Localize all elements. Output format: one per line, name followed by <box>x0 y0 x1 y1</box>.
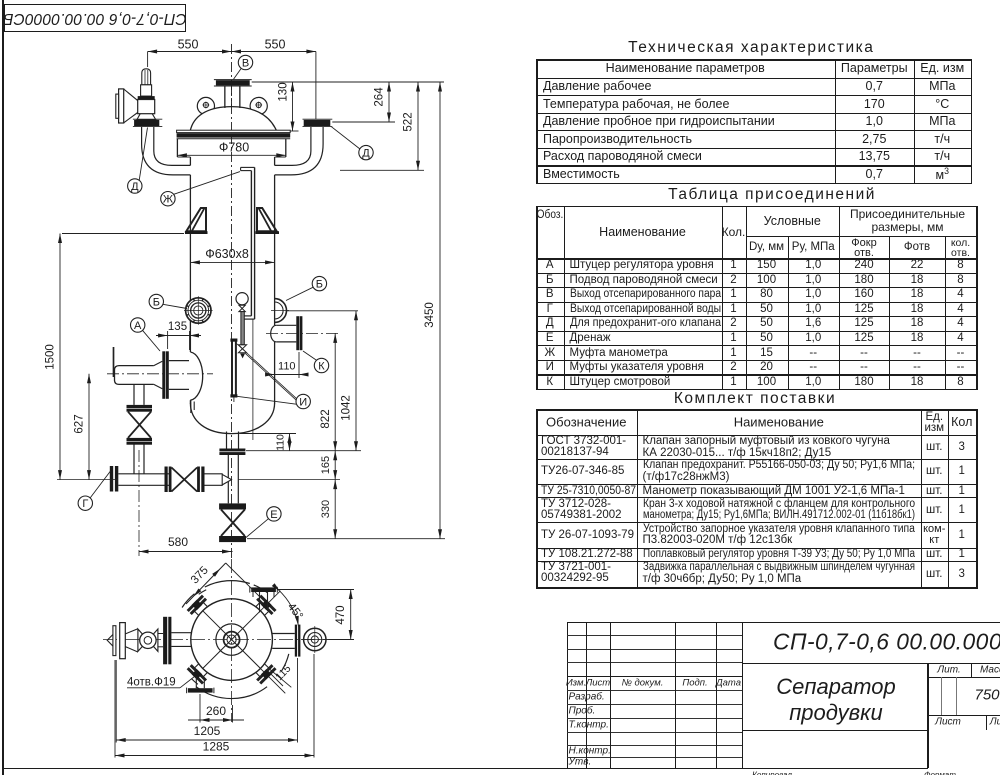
lifting lug right <box>250 97 267 114</box>
pipe D right elbow <box>275 127 324 175</box>
plan bottom nozzle <box>188 688 213 692</box>
svg-text:Ф630х8: Ф630х8 <box>205 247 249 261</box>
svg-text:А: А <box>134 320 142 332</box>
plan view: shell circle <box>191 599 273 681</box>
support bracket right <box>257 208 277 231</box>
reducer cone to regulator <box>154 361 163 365</box>
bottom flange pair <box>219 449 245 452</box>
svg-text:1205: 1205 <box>194 724 221 738</box>
NE diagonal extension <box>260 591 280 611</box>
manometer <box>236 293 248 305</box>
svg-text:110: 110 <box>275 434 287 451</box>
nozzle B flange (top) <box>214 79 252 81</box>
label B right <box>312 276 326 290</box>
plan left cap <box>107 635 113 647</box>
dim 522 <box>340 169 424 171</box>
svg-text:115: 115 <box>273 663 293 683</box>
dim 627 <box>88 374 90 480</box>
bottom nozzle <box>226 432 228 449</box>
plan vertical centerline <box>231 559 233 722</box>
F780 shell section walls <box>176 139 178 157</box>
label G <box>78 496 92 510</box>
plan inner circle F630 inner <box>216 624 247 655</box>
flange D right (black bar) <box>303 118 333 120</box>
svg-text:1285: 1285 <box>203 740 230 754</box>
label I with leaders <box>296 394 310 408</box>
dim 115 <box>269 669 291 688</box>
dim 1205 <box>115 660 117 743</box>
plan right nozzle K pipe <box>272 633 295 635</box>
label Zh <box>161 192 175 206</box>
flange joint F780 <box>177 130 291 132</box>
dim 260 <box>199 694 201 723</box>
dim 1500 <box>59 234 61 480</box>
dim 375 <box>186 563 226 604</box>
svg-text:3450: 3450 <box>424 302 436 328</box>
centerline K <box>266 332 341 334</box>
support bracket left <box>186 208 206 231</box>
dim 3450 <box>439 82 441 539</box>
svg-text:135: 135 <box>168 321 187 333</box>
SE diagonal extension <box>260 668 285 693</box>
valve on G line <box>165 467 168 493</box>
svg-text:330: 330 <box>320 500 332 518</box>
dimension 550-550 top <box>148 51 316 53</box>
plan hub circles <box>224 632 240 648</box>
dim 1042 <box>355 311 357 451</box>
dim 110 bottom <box>240 433 297 435</box>
extension from bottom flange <box>246 450 361 452</box>
nozzle B right (half flange at wall) <box>275 299 287 323</box>
label D right <box>359 145 373 159</box>
extension line B right to dim <box>287 310 358 312</box>
dim F780 <box>177 154 285 156</box>
dim 470 <box>278 589 355 591</box>
centerline vessel axis <box>231 44 233 558</box>
plan valve bowtie <box>138 629 158 651</box>
lifting lug left <box>197 97 214 114</box>
pipe D left elbow <box>142 127 191 175</box>
svg-text:550: 550 <box>265 38 286 52</box>
nozzle B pipe into dome <box>224 86 226 108</box>
nozzle B left (face-on flange) <box>186 298 211 323</box>
svg-text:822: 822 <box>320 409 332 428</box>
nozzle K cap <box>271 325 277 342</box>
nozzle B pipe <box>224 86 226 108</box>
dim 135 <box>167 331 169 349</box>
top-left document number box <box>4 4 186 33</box>
svg-text:Б: Б <box>153 297 160 309</box>
pipe G horizontal <box>118 473 171 475</box>
safety valve outlet cone left <box>124 89 138 101</box>
svg-text:522: 522 <box>403 112 415 131</box>
plan horizontal centerline <box>103 639 345 641</box>
valve on A line <box>133 444 135 474</box>
dim F630x8 <box>190 261 274 263</box>
flange D left (black bar) <box>133 118 162 120</box>
plan valve round body <box>140 632 156 648</box>
safety valve stem cap <box>142 69 151 85</box>
svg-text:260: 260 <box>206 704 226 718</box>
svg-text:627: 627 <box>74 414 86 433</box>
svg-text:1500: 1500 <box>45 344 57 370</box>
bottom head <box>190 403 274 434</box>
nozzle K flange bars <box>296 316 299 350</box>
flange G left <box>110 466 113 492</box>
plan diagonal centerlines <box>232 640 261 669</box>
svg-text:Д: Д <box>131 181 139 193</box>
centerline A-valve line <box>138 450 140 556</box>
svg-text:Е: Е <box>270 509 277 521</box>
manometer cock <box>239 305 245 311</box>
centerline nozzle A <box>107 373 213 375</box>
dim 822 <box>334 333 336 450</box>
plan left assembly: nozzle A flange bars <box>163 617 167 665</box>
safety valve hat band <box>138 96 155 99</box>
plan left flange plates <box>120 623 126 659</box>
svg-text:В: В <box>242 58 249 70</box>
safety valve skirt <box>137 114 156 120</box>
axis inside dome <box>231 86 233 131</box>
nozzle K pipe <box>276 324 296 326</box>
safety valve upper block <box>141 85 152 96</box>
dim 165 <box>334 451 336 480</box>
label E <box>267 507 281 521</box>
svg-text:580: 580 <box>168 535 188 549</box>
svg-text:И: И <box>299 397 307 409</box>
label K <box>314 358 328 372</box>
level gauge glass <box>230 339 237 342</box>
valve E <box>219 503 246 509</box>
svg-text:1042: 1042 <box>341 395 353 421</box>
svg-text:Ф780: Ф780 <box>219 141 249 155</box>
scallop curls <box>199 590 207 595</box>
plan pipe to flange <box>158 633 163 635</box>
shell F630 right wall <box>274 157 276 165</box>
extension from E bottom <box>247 538 445 540</box>
float regulator body <box>115 366 154 385</box>
svg-text:110: 110 <box>278 361 296 373</box>
svg-text:К: К <box>318 361 325 373</box>
dome head <box>190 107 276 131</box>
nozzle A internal drop <box>190 400 192 413</box>
nozzle A flange (hatched bars) <box>162 351 165 399</box>
svg-text:Ж: Ж <box>163 194 173 206</box>
svg-text:Д: Д <box>362 148 370 160</box>
plan left pipe <box>171 632 191 634</box>
sheet frame left border <box>2 0 4 775</box>
svg-text:45°: 45° <box>285 601 305 622</box>
drain pipe vertical <box>227 455 229 503</box>
plan top nozzle <box>251 587 276 592</box>
safety valve outlet flange plates <box>119 89 124 123</box>
svg-text:470: 470 <box>335 605 347 624</box>
plan reducer cone <box>125 629 138 634</box>
label D left <box>128 179 142 193</box>
svg-text:550: 550 <box>178 38 199 52</box>
nozzle A pipe <box>169 360 189 362</box>
svg-text:264: 264 <box>374 87 386 107</box>
dim 110 (K) <box>298 352 300 378</box>
svg-text:Б: Б <box>316 279 323 291</box>
dim 45deg arc <box>278 590 298 627</box>
centerline G extension left <box>57 479 118 481</box>
svg-text:4отв.Ф19: 4отв.Ф19 <box>127 677 176 689</box>
safety valve body <box>138 100 155 114</box>
extension line from B flange right <box>252 81 444 83</box>
dim 1285 <box>114 660 116 758</box>
manometer tube <box>241 312 244 345</box>
gauge cock (3-way) <box>238 345 246 353</box>
label A <box>131 318 145 332</box>
svg-text:Г: Г <box>82 498 88 510</box>
shell F630 left wall <box>189 157 191 165</box>
svg-text:130: 130 <box>278 82 290 101</box>
plan K flange bars <box>295 625 297 657</box>
dim 580 <box>139 551 233 553</box>
svg-text:375: 375 <box>189 564 211 586</box>
regulator stem <box>113 347 115 377</box>
dim 130 <box>290 130 298 132</box>
svg-text:165: 165 <box>320 456 332 474</box>
nozzle A bulge (inside) <box>190 352 202 400</box>
centerline G extension right <box>238 479 340 481</box>
label B <box>238 55 252 69</box>
dim 264 <box>332 121 395 123</box>
label B left <box>149 294 163 308</box>
diagonal nozzle flanges (4x45deg) <box>256 602 260 606</box>
dip tube (steam pipe) <box>241 166 255 168</box>
plan K mating flange disc <box>304 628 326 650</box>
dim 330 <box>334 480 336 539</box>
pipe from regulator down <box>133 384 135 405</box>
F780 flange scallop arcs <box>205 581 250 587</box>
